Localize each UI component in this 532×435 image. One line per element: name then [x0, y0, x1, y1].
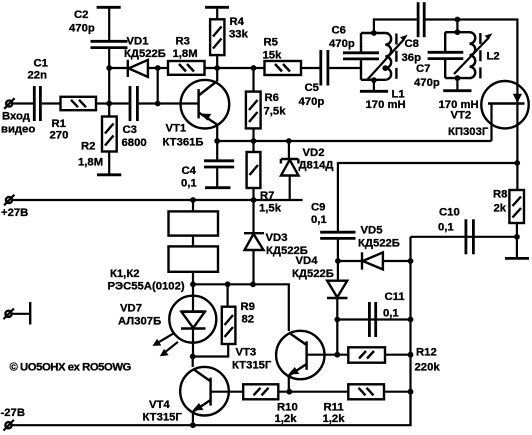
capacitor C6 470p label [329, 25, 355, 51]
svg-text:82: 82 [242, 314, 255, 326]
svg-text:VT1: VT1 [166, 123, 187, 135]
svg-text:VD3: VD3 [266, 232, 288, 244]
svg-text:© UO5OHX ex RO5OWG: © UO5OHX ex RO5OWG [10, 362, 132, 374]
svg-text:270: 270 [50, 130, 69, 142]
wire: R1 to C3 (node row) [96, 102, 129, 104]
resistor R1 270 [50, 97, 97, 142]
junction: VT4 emitter node [190, 422, 196, 428]
capacitor C3 6800 [122, 86, 147, 149]
svg-text:0,1: 0,1 [438, 222, 454, 234]
wire: VD1 to R3 [148, 67, 168, 69]
svg-text:R7: R7 [260, 190, 274, 202]
capacitor C4 0,1 (to ground bar) [181, 141, 234, 189]
svg-text:R12: R12 [416, 347, 437, 359]
svg-text:33k: 33k [229, 29, 249, 41]
svg-text:КТ361Б: КТ361Б [163, 137, 204, 149]
svg-text:1,8М: 1,8М [173, 48, 198, 60]
svg-text:0,1: 0,1 [181, 177, 197, 189]
junction: R1/R2/C2 node [106, 101, 112, 107]
svg-text:C11: C11 [385, 291, 405, 303]
junction: C11 right node [408, 317, 414, 323]
svg-text:РЭС55А(0102): РЭС55А(0102) [108, 281, 185, 293]
svg-text:+27В: +27В [1, 207, 28, 219]
wire: output row to C9 branch [338, 163, 517, 232]
junction: tank2 stem node [455, 17, 461, 23]
svg-text:1,2k: 1,2k [323, 413, 346, 425]
junction: tank2 top tap [455, 29, 461, 35]
wire: +27V rail [12, 199, 303, 201]
svg-text:C9: C9 [311, 202, 325, 214]
junction: VD7/R9/VT4 collector node [190, 354, 196, 360]
junction: R11 right node [408, 389, 414, 395]
wire: node to VD1 [109, 67, 128, 69]
svg-text:R1: R1 [52, 118, 66, 130]
svg-text:VD4: VD4 [296, 255, 319, 267]
svg-text:R5: R5 [264, 37, 278, 49]
svg-text:АЛ307Б: АЛ307Б [118, 316, 161, 328]
junction: VT2 drain / R8 / output node [514, 160, 520, 166]
svg-text:470p: 470p [69, 23, 95, 35]
svg-text:470p: 470p [299, 96, 325, 108]
svg-text:1,5k: 1,5k [259, 202, 282, 214]
resistor R2 1,8М (to ground bar) [78, 104, 121, 175]
svg-text:R2: R2 [81, 141, 95, 153]
svg-text:VD5: VD5 [361, 225, 383, 237]
resistor R11 1,2k [323, 384, 411, 425]
svg-text:-27В: -27В [1, 407, 26, 419]
svg-text:2k: 2k [494, 203, 507, 215]
wire: stem to tank2 [456, 20, 458, 33]
junction: VD3 bottom node [250, 281, 256, 287]
diode VD4 КД522Б [292, 255, 348, 319]
wire: C5 to L1 tank [329, 67, 361, 69]
svg-text:К1,К2: К1,К2 [110, 268, 140, 280]
svg-text:C6: C6 [332, 25, 346, 37]
wire: C8 to VT2 gate corner [426, 20, 518, 95]
junction: relay coil node on rail [190, 197, 196, 203]
svg-text:VT3: VT3 [236, 346, 257, 358]
svg-text:VD1: VD1 [127, 36, 149, 48]
svg-text:КД522Б: КД522Б [292, 268, 334, 280]
svg-text:C4: C4 [182, 165, 197, 177]
junction: C11 left node [334, 317, 340, 323]
capacitor C2 470p (top, with open terminal bar) [69, 7, 128, 47]
svg-text:1,2k: 1,2k [275, 413, 298, 425]
junction: VD5/VD4 node [335, 258, 341, 264]
resistor R6 7,5k [246, 68, 286, 141]
capacitor C8 36p [402, 2, 425, 64]
transistor VT4 КТ315Г (NPN) [143, 357, 244, 426]
junction: L1 coil tap dot [382, 65, 388, 71]
svg-text:C7: C7 [416, 63, 430, 75]
junction: C6 line vertical branch (x=361 above C6: cap wire) [360, 41, 362, 53]
svg-text:470p: 470p [329, 38, 355, 50]
capacitor C5 470p [299, 50, 328, 108]
wire: C3 to VT1 base [139, 102, 199, 104]
wire: right column bus [409, 237, 411, 425]
transistor VT3 КТ315Г (NPN) [232, 331, 348, 392]
capacitor C7 470p label [414, 63, 440, 89]
svg-text:0,1: 0,1 [383, 308, 399, 320]
svg-text:R3: R3 [176, 36, 190, 48]
junction: tank1 top tap [371, 30, 377, 36]
diode VD1 КД522Б [124, 36, 166, 78]
resistor R9 82 [193, 284, 255, 356]
svg-text:1,8М: 1,8М [78, 156, 103, 168]
junction: R8/C10 node [514, 234, 520, 240]
svg-text:КТ315Г: КТ315Г [143, 412, 183, 424]
wire: vertical link x158 between diode row and base row [157, 68, 159, 104]
+27V supply terminal [1, 195, 28, 219]
junction: VD2 node [286, 138, 292, 144]
svg-text:C5: C5 [305, 82, 319, 94]
svg-text:7,5k: 7,5k [264, 106, 287, 118]
junction: right column VD5 node [408, 258, 414, 264]
wire: R5 to C5 [301, 67, 320, 69]
wire: vertical C2/VD1 branch at x109 [108, 48, 110, 104]
svg-text:R10: R10 [277, 402, 298, 414]
svg-text:0,1: 0,1 [311, 214, 327, 226]
svg-text:R6: R6 [265, 92, 279, 104]
wire: VT1 collector to node [216, 68, 218, 81]
capacitor C10 0,1 [438, 206, 473, 254]
transistor VT2 КП303Г (JFET) [448, 81, 529, 190]
junction: R12 left node [334, 352, 340, 358]
wire: column to R12 [336, 320, 338, 355]
inductor L2 tank (with C7) [428, 32, 500, 111]
svg-text:R8: R8 [493, 188, 507, 200]
junction: R12 right node [408, 352, 414, 358]
svg-text:VT4: VT4 [149, 399, 170, 411]
wire: emitter row (VT1 to VT2 source) [217, 140, 491, 142]
svg-text:Вход: Вход [2, 111, 30, 123]
resistor R7 1,5k [247, 141, 282, 214]
svg-text:15k: 15k [263, 50, 283, 62]
resistor R5 15k [263, 37, 302, 76]
svg-text:R9: R9 [241, 301, 255, 313]
svg-text:C2: C2 [74, 9, 88, 21]
junction: R4/VT1 collector node [214, 65, 220, 71]
wire: VT1 emitter down to emitter row [216, 124, 218, 141]
svg-text:VD7: VD7 [120, 302, 142, 314]
wire: -27V rail [12, 392, 411, 426]
junction: R7/VD3 node on rail [251, 197, 257, 203]
resistor R4 33k (with open terminal bar) [205, 7, 248, 68]
svg-text:C8: C8 [405, 38, 419, 50]
-27V supply terminal [1, 407, 26, 431]
inductor L1 170 mH tank (with C6) [343, 33, 408, 111]
svg-text:220k: 220k [415, 362, 441, 374]
wire: lower distribution row [193, 284, 289, 331]
wire: tank1 top to C8 row [374, 20, 417, 34]
relay contact output terminal [4, 302, 31, 325]
svg-text:КД522Б: КД522Б [358, 237, 400, 249]
wire: VD5 row [338, 260, 362, 262]
capacitor C1 22n [28, 58, 48, 122]
relay coils K1,K2 РЭС55А(0102) [108, 200, 219, 293]
junction: VD1 cathode node [106, 65, 112, 71]
svg-text:R11: R11 [324, 402, 344, 414]
junction: VD1/R3/C3-branch node [155, 65, 161, 71]
svg-text:6800: 6800 [122, 137, 147, 149]
junction: VT3 emitter node [286, 389, 292, 395]
svg-text:22n: 22n [28, 70, 48, 82]
svg-text:VD2: VD2 [303, 147, 325, 159]
junction: C3/base node [155, 101, 161, 107]
svg-text:КТ315Г: КТ315Г [232, 359, 272, 371]
svg-text:C3: C3 [123, 124, 137, 136]
resistor R12 220k [348, 347, 440, 374]
ground bar: tank1 bottom terminal [360, 77, 388, 91]
junction: R9 top node [225, 281, 231, 287]
svg-text:170 mH: 170 mH [366, 99, 406, 111]
diode VD5 КД522Б [358, 225, 400, 270]
wire: input to C1 [12, 102, 33, 104]
svg-text:36p: 36p [402, 52, 422, 64]
junction: relay/VD7 node [190, 281, 196, 287]
resistor R8 2k (to ground bar) [493, 188, 529, 258]
svg-text:C10: C10 [439, 206, 460, 218]
svg-text:КП303Г: КП303Г [448, 126, 489, 138]
svg-text:R4: R4 [230, 16, 245, 28]
svg-text:C1: C1 [34, 58, 48, 70]
svg-text:КД522Б: КД522Б [124, 48, 166, 60]
wire: VD5 to right column [383, 260, 411, 262]
wire: R3 to R5 (collector row) [205, 67, 265, 69]
resistor R3 1,8М [168, 36, 205, 75]
resistor R10 1,2k [243, 384, 348, 425]
wire: C10 row [411, 236, 517, 238]
zener diode VD2 Д814Д [281, 141, 334, 200]
svg-text:VT2: VT2 [451, 110, 472, 122]
input terminal (Вход видео) [1, 98, 35, 135]
svg-text:470p: 470p [414, 77, 440, 89]
capacitor C11 0,1 [369, 291, 404, 337]
junction: R6/R5 node [251, 65, 257, 71]
ground bar: tank2 bottom terminal [443, 75, 471, 91]
diode VD3 КД522Б [244, 200, 308, 284]
svg-text:видео: видео [1, 124, 35, 136]
wire: C11 row [337, 318, 410, 320]
junction: R6/R7 node [251, 138, 257, 144]
junction: VT1 emitter/C4 node [214, 138, 220, 144]
capacitor C9 0,1 [311, 202, 356, 262]
LED VD7 АЛ307Б [118, 284, 216, 356]
svg-text:Д814Д: Д814Д [299, 159, 334, 171]
wire: C1 to R1 [42, 102, 61, 104]
svg-text:L2: L2 [487, 50, 500, 62]
transistor VT1 КТ361Б (PNP) [163, 80, 230, 149]
